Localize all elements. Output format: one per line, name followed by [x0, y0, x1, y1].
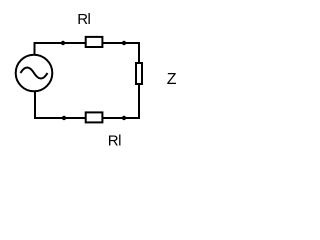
- node dot bottom-right: [122, 116, 126, 120]
- wire bottom rail: [34, 117, 140, 119]
- node dot top-left: [61, 41, 65, 45]
- resistor Rl (bottom): [86, 112, 103, 122]
- svg-text:Z: Z: [167, 71, 177, 88]
- wire top stub from source to top rail: [34, 43, 36, 55]
- svg-text:Rl: Rl: [108, 133, 121, 150]
- svg-text:Rl: Rl: [77, 11, 90, 28]
- node dot top-right: [122, 41, 126, 45]
- node dot bottom-left: [62, 116, 66, 120]
- impedance Z: [136, 63, 142, 84]
- sine wave symbol: [21, 68, 48, 79]
- wire right rail: [138, 42, 140, 119]
- wire bottom stub from bottom rail to source: [34, 91, 36, 119]
- wire top rail: [34, 42, 141, 44]
- resistor Rl (top): [86, 37, 103, 47]
- AC source V1: [16, 55, 53, 92]
